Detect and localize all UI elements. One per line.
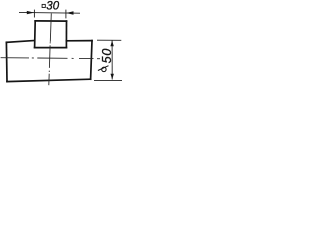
svg-text:30: 30: [46, 0, 59, 12]
boss right edge: [65, 21, 67, 47]
phi50 dimension line: [111, 41, 113, 80]
cylinder body outline: [6, 41, 92, 82]
dimension text phi symbol (rotated): [98, 66, 109, 72]
right edge: [91, 41, 92, 80]
top edge left segment: [6, 41, 34, 43]
top dimension: extension line right: [65, 10, 67, 19]
phi50 bottom arrowhead: [111, 74, 114, 80]
boss left edge: [34, 21, 37, 48]
top edge right segment: [66, 40, 92, 42]
top dimension: extension line left: [33, 10, 35, 18]
horizontal center line (dash-dot): [1, 58, 100, 59]
bottom edge: [7, 79, 91, 81]
square boss outline: [35, 21, 67, 48]
phi50 dimension: top extension line: [97, 39, 121, 41]
top dimension left arrowhead: [27, 11, 34, 14]
phi50 top arrowhead: [110, 41, 113, 47]
vertical center line (dash-dot): [49, 13, 52, 85]
engineering drawing: cylinder with square boss: [0, 0, 126, 89]
top dimension line: [19, 11, 80, 14]
left edge: [5, 42, 8, 81]
boss top edge: [35, 20, 66, 22]
phi50 dimension: bottom extension line: [94, 79, 122, 81]
top dimension right arrowhead: [66, 11, 73, 14]
dimension text square symbol: [42, 4, 45, 7]
svg-text:50: 50: [100, 48, 114, 64]
boss base intersection edge: [35, 47, 67, 49]
